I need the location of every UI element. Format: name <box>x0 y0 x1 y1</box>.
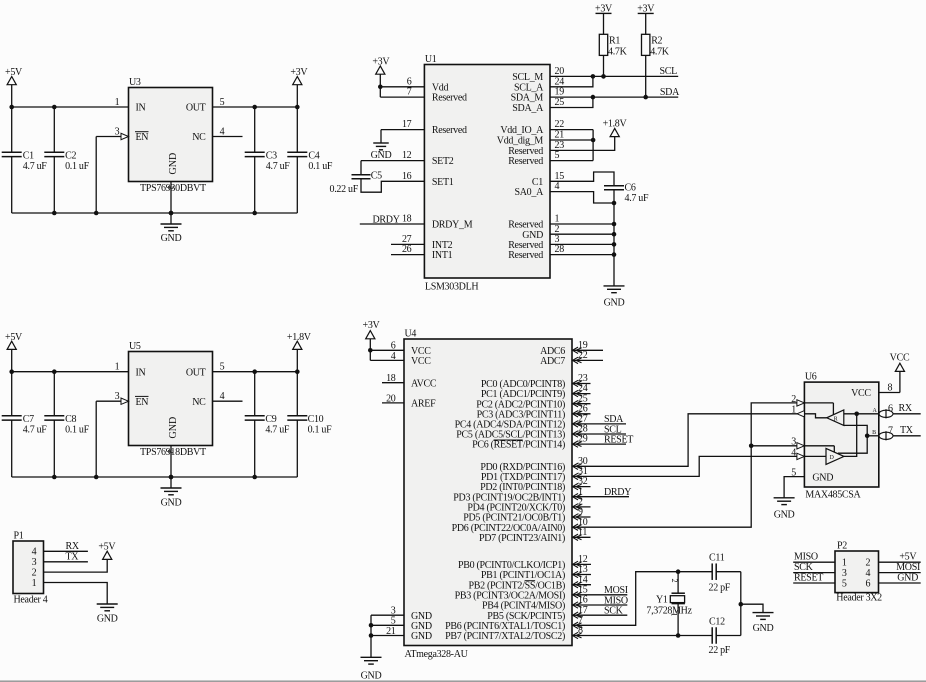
svg-text:VCC: VCC <box>411 356 431 367</box>
svg-text:1: 1 <box>670 613 679 617</box>
svg-text:DRDY: DRDY <box>604 487 631 498</box>
svg-text:+5V: +5V <box>5 332 23 343</box>
svg-text:GND: GND <box>361 671 382 682</box>
svg-text:5: 5 <box>220 97 225 108</box>
svg-text:1: 1 <box>32 578 37 589</box>
svg-text:GND: GND <box>161 498 182 509</box>
svg-text:4.7 uF: 4.7 uF <box>23 424 48 435</box>
svg-text:R2: R2 <box>651 36 662 47</box>
svg-text:C1: C1 <box>23 150 34 161</box>
svg-text:GND: GND <box>168 153 179 175</box>
svg-text:20: 20 <box>555 66 565 77</box>
svg-text:4.7 uF: 4.7 uF <box>265 424 290 435</box>
svg-text:4: 4 <box>791 447 796 458</box>
svg-text:INT1: INT1 <box>432 250 453 261</box>
svg-text:SET2: SET2 <box>432 156 454 167</box>
svg-text:U1: U1 <box>425 54 437 65</box>
svg-text:1: 1 <box>791 405 796 416</box>
svg-text:GND: GND <box>97 614 118 625</box>
svg-text:4.7 uF: 4.7 uF <box>625 193 650 204</box>
svg-text:OUT: OUT <box>186 367 206 378</box>
svg-text:4.7 uF: 4.7 uF <box>266 161 291 172</box>
svg-text:3: 3 <box>791 437 796 448</box>
svg-text:22 pF: 22 pF <box>709 645 731 656</box>
svg-text:+5V: +5V <box>5 67 23 78</box>
svg-text:MAX485CSA: MAX485CSA <box>805 490 861 501</box>
svg-text:RX: RX <box>66 541 80 552</box>
svg-text:12: 12 <box>402 150 412 161</box>
svg-text:SA0_A: SA0_A <box>514 187 544 198</box>
svg-text:GND: GND <box>168 417 179 439</box>
svg-text:AVCC: AVCC <box>411 378 437 389</box>
svg-text:ADC7: ADC7 <box>540 356 565 367</box>
svg-text:+5V: +5V <box>98 541 116 552</box>
svg-text:C4: C4 <box>308 150 319 161</box>
svg-text:OUT: OUT <box>186 103 206 114</box>
svg-text:EN: EN <box>136 132 149 143</box>
svg-text:SCL: SCL <box>660 66 678 77</box>
svg-text:Y1: Y1 <box>656 594 668 605</box>
svg-text:4.7K: 4.7K <box>608 47 628 58</box>
svg-text:P2: P2 <box>837 541 847 552</box>
svg-text:Reserved: Reserved <box>508 250 543 261</box>
svg-text:3: 3 <box>115 126 120 137</box>
svg-text:4: 4 <box>220 126 225 137</box>
svg-text:SDA_A: SDA_A <box>512 103 544 114</box>
svg-text:18: 18 <box>402 214 412 225</box>
svg-text:21: 21 <box>555 130 565 141</box>
svg-text:GND: GND <box>161 233 182 244</box>
svg-text:VCC: VCC <box>890 352 910 363</box>
svg-text:26: 26 <box>402 244 412 255</box>
svg-text:C3: C3 <box>266 150 277 161</box>
svg-text:NC: NC <box>192 397 206 408</box>
svg-text:RX: RX <box>899 403 913 414</box>
svg-text:VCC: VCC <box>851 388 871 399</box>
svg-text:0.1 uF: 0.1 uF <box>65 161 90 172</box>
svg-text:U3: U3 <box>129 77 141 88</box>
svg-text:SCK: SCK <box>604 606 624 617</box>
svg-text:R: R <box>834 417 838 423</box>
svg-text:4.7K: 4.7K <box>650 47 670 58</box>
svg-text:4: 4 <box>866 568 871 579</box>
svg-text:MISO: MISO <box>794 552 818 563</box>
svg-text:+3V: +3V <box>290 67 308 78</box>
svg-text:DRDY_M: DRDY_M <box>432 220 473 231</box>
svg-text:4: 4 <box>220 391 225 402</box>
svg-text:1: 1 <box>115 362 120 373</box>
svg-text:Reserved: Reserved <box>508 156 543 167</box>
svg-text:+3V: +3V <box>363 320 381 331</box>
svg-text:7: 7 <box>407 87 412 98</box>
svg-text:LSM303DLH: LSM303DLH <box>425 282 478 293</box>
svg-text:SDA: SDA <box>660 87 680 98</box>
svg-text:R1: R1 <box>609 36 620 47</box>
svg-text:C12: C12 <box>709 616 725 627</box>
svg-text:0.22 uF: 0.22 uF <box>330 184 359 195</box>
svg-text:22 pF: 22 pF <box>709 582 731 593</box>
svg-text:C7: C7 <box>23 414 34 425</box>
svg-text:ATmega328-AU: ATmega328-AU <box>405 649 469 660</box>
svg-text:U4: U4 <box>405 329 417 340</box>
svg-text:MOSI: MOSI <box>896 562 920 573</box>
svg-text:C11: C11 <box>709 552 725 563</box>
svg-text:Reserved: Reserved <box>432 93 467 104</box>
svg-text:3: 3 <box>115 391 120 402</box>
svg-text:6: 6 <box>866 578 871 589</box>
svg-text:2: 2 <box>791 394 796 405</box>
svg-text:GND: GND <box>897 572 918 583</box>
svg-text:GND: GND <box>812 472 833 483</box>
svg-text:C9: C9 <box>265 414 276 425</box>
svg-text:Vdd_dig_M: Vdd_dig_M <box>497 136 544 147</box>
svg-text:C10: C10 <box>308 414 324 425</box>
svg-text:0.1 uF: 0.1 uF <box>308 424 333 435</box>
svg-text:SCK: SCK <box>794 562 814 573</box>
svg-text:16: 16 <box>402 171 412 182</box>
svg-text:B: B <box>872 430 876 436</box>
svg-text:C2: C2 <box>65 150 76 161</box>
svg-text:C6: C6 <box>625 182 636 193</box>
svg-text:5: 5 <box>555 150 560 161</box>
svg-text:1: 1 <box>115 97 120 108</box>
svg-text:U5: U5 <box>129 341 141 352</box>
svg-text:SDA_M: SDA_M <box>511 93 544 104</box>
svg-text:GND: GND <box>371 150 392 161</box>
svg-text:RESET: RESET <box>604 434 633 445</box>
svg-text:2: 2 <box>866 558 871 569</box>
svg-text:4: 4 <box>32 547 37 558</box>
svg-text:C8: C8 <box>65 414 76 425</box>
svg-text:TX: TX <box>66 552 80 563</box>
svg-text:IN: IN <box>136 367 146 378</box>
svg-text:Vdd_IO_A: Vdd_IO_A <box>500 125 544 136</box>
svg-text:4: 4 <box>555 181 560 192</box>
svg-text:1: 1 <box>842 558 847 569</box>
svg-text:GND: GND <box>774 510 795 521</box>
svg-text:PB7 (PCINT7/XTAL2/TOSC2): PB7 (PCINT7/XTAL2/TOSC2) <box>445 631 565 642</box>
svg-text:SET1: SET1 <box>432 177 454 188</box>
svg-text:DRDY: DRDY <box>373 214 400 225</box>
svg-text:2: 2 <box>32 568 37 579</box>
svg-text:GND: GND <box>411 631 432 642</box>
svg-text:5: 5 <box>220 362 225 373</box>
svg-text:22: 22 <box>555 119 565 130</box>
svg-text:2: 2 <box>670 579 679 583</box>
svg-text:+3V: +3V <box>372 56 390 67</box>
svg-text:6: 6 <box>888 403 893 414</box>
svg-text:Reserved: Reserved <box>432 125 467 136</box>
svg-text:RESET: RESET <box>794 572 823 583</box>
svg-text:EN: EN <box>136 397 149 408</box>
svg-text:4.7 uF: 4.7 uF <box>23 161 48 172</box>
svg-text:NC: NC <box>192 132 206 143</box>
svg-text:U6: U6 <box>805 372 817 383</box>
svg-text:C5: C5 <box>371 170 382 181</box>
svg-text:Header 4: Header 4 <box>14 595 48 606</box>
svg-text:PD7 (PCINT23/AIN1): PD7 (PCINT23/AIN1) <box>479 533 565 544</box>
svg-text:8: 8 <box>888 383 893 394</box>
svg-text:GND: GND <box>753 623 774 634</box>
svg-text:3: 3 <box>842 568 847 579</box>
svg-text:17: 17 <box>402 119 412 130</box>
svg-text:PC6 (RESET/PCINT14): PC6 (RESET/PCINT14) <box>472 440 565 451</box>
svg-text:25: 25 <box>555 97 565 108</box>
svg-text:P1: P1 <box>14 531 24 542</box>
svg-text:+1.8V: +1.8V <box>287 332 312 343</box>
svg-text:+5V: +5V <box>899 552 917 563</box>
svg-text:+1.8V: +1.8V <box>603 119 628 130</box>
svg-text:GND: GND <box>604 298 625 309</box>
svg-text:0.1 uF: 0.1 uF <box>308 161 333 172</box>
svg-text:19: 19 <box>555 87 565 98</box>
svg-text:7: 7 <box>888 425 893 436</box>
svg-text:TX: TX <box>900 425 914 436</box>
svg-text:28: 28 <box>555 244 565 255</box>
svg-text:5: 5 <box>842 578 847 589</box>
svg-text:Header 3X2: Header 3X2 <box>836 593 882 604</box>
svg-text:AREF: AREF <box>411 399 436 410</box>
svg-text:0.1 uF: 0.1 uF <box>65 424 90 435</box>
svg-text:IN: IN <box>136 103 146 114</box>
svg-text:SCL_M: SCL_M <box>512 72 543 83</box>
